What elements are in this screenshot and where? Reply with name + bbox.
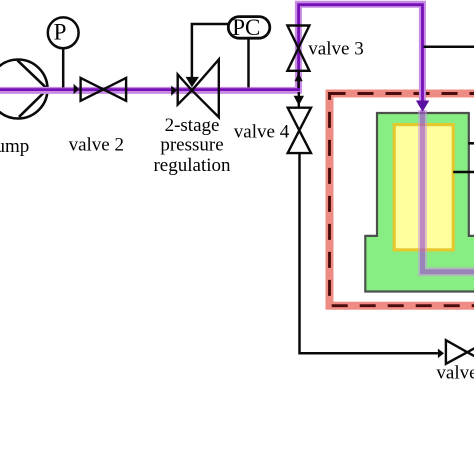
valve 4 xyxy=(288,92,311,153)
valve: 2-stage pressure regulation valve xyxy=(178,60,219,118)
svg-text:valve 4: valve 4 xyxy=(234,122,290,143)
arrow: purple flow arrow into vessel xyxy=(416,101,429,112)
controller PC link to regulator xyxy=(186,24,229,87)
controller PC sensing line to pipe xyxy=(247,38,250,87)
valve 5 xyxy=(446,340,474,364)
wire: outlet line from valve 4 to valve 5 xyxy=(300,153,438,353)
arrow: flow arrow before 2-stage regulator xyxy=(171,86,177,96)
svg-text:regulation: regulation xyxy=(153,155,231,176)
svg-text:pressure: pressure xyxy=(160,135,223,156)
svg-text:2-stage: 2-stage xyxy=(165,115,220,136)
vessel: green body with base xyxy=(365,113,474,292)
svg-text:valve 2: valve 2 xyxy=(69,135,124,156)
stub line to vessel wall xyxy=(468,142,474,145)
stub line to yellow chamber xyxy=(453,171,474,174)
svg-text:pump: pump xyxy=(0,136,29,157)
arrow: flow arrow before valve 2 xyxy=(74,84,79,94)
enclosure: red dashed boundary box xyxy=(330,94,474,306)
svg-text:P: P xyxy=(54,20,67,45)
controller PC xyxy=(228,15,269,40)
vessel: yellow inner chamber xyxy=(394,125,453,250)
svg-text:PC: PC xyxy=(232,15,260,40)
pipe: bright purple flow path (feed line) xyxy=(0,4,423,103)
svg-text:valve 5: valve 5 xyxy=(436,363,474,384)
svg-text:valve 3: valve 3 xyxy=(308,39,363,60)
valve 2 xyxy=(81,78,127,101)
pipe: muted purple flow path inside vessel xyxy=(423,110,474,272)
valve 3 xyxy=(287,26,309,89)
label 2-stage pressure regulation xyxy=(153,115,231,176)
arrow: flow arrow before valve 5 xyxy=(438,349,444,359)
pump P1 xyxy=(0,60,48,119)
stub line top right xyxy=(424,46,474,49)
gauge P xyxy=(48,17,79,87)
